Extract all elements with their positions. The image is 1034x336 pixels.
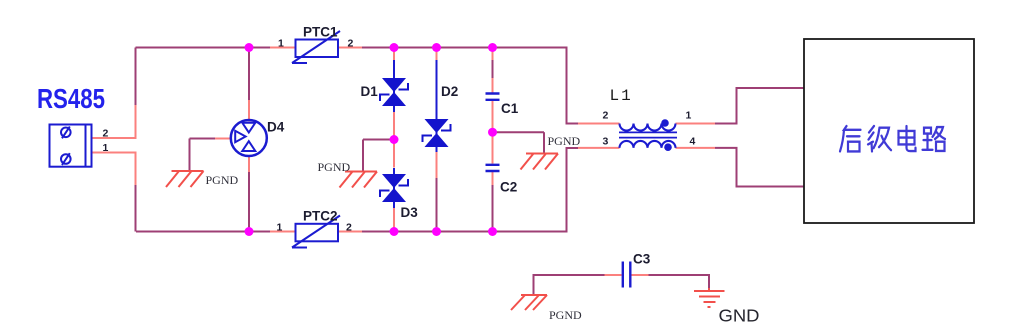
svg-text:C1: C1 (501, 101, 519, 116)
svg-text:D4: D4 (267, 120, 285, 135)
svg-text:PTC1: PTC1 (303, 25, 338, 40)
svg-text:4: 4 (690, 136, 696, 148)
svg-text:L1: L1 (610, 87, 633, 105)
svg-text:PGND: PGND (318, 160, 351, 174)
svg-text:1: 1 (277, 222, 283, 234)
svg-text:PGND: PGND (548, 134, 581, 148)
svg-text:D2: D2 (441, 84, 458, 99)
svg-text:D3: D3 (401, 205, 419, 220)
svg-text:2: 2 (346, 222, 352, 234)
svg-text:D1: D1 (361, 84, 379, 99)
svg-text:PGND: PGND (206, 173, 239, 187)
svg-text:PGND: PGND (549, 308, 582, 322)
svg-text:2: 2 (603, 110, 609, 122)
svg-text:RS485: RS485 (37, 83, 105, 114)
svg-text:1: 1 (103, 142, 109, 154)
svg-text:C3: C3 (633, 252, 651, 267)
svg-text:C2: C2 (500, 180, 517, 195)
svg-text:PTC2: PTC2 (303, 209, 338, 224)
svg-text:2: 2 (103, 128, 109, 140)
svg-text:3: 3 (603, 136, 609, 148)
svg-text:1: 1 (278, 38, 284, 50)
svg-text:GND: GND (719, 306, 760, 326)
svg-text:1: 1 (686, 110, 692, 122)
svg-text:2: 2 (348, 38, 354, 50)
